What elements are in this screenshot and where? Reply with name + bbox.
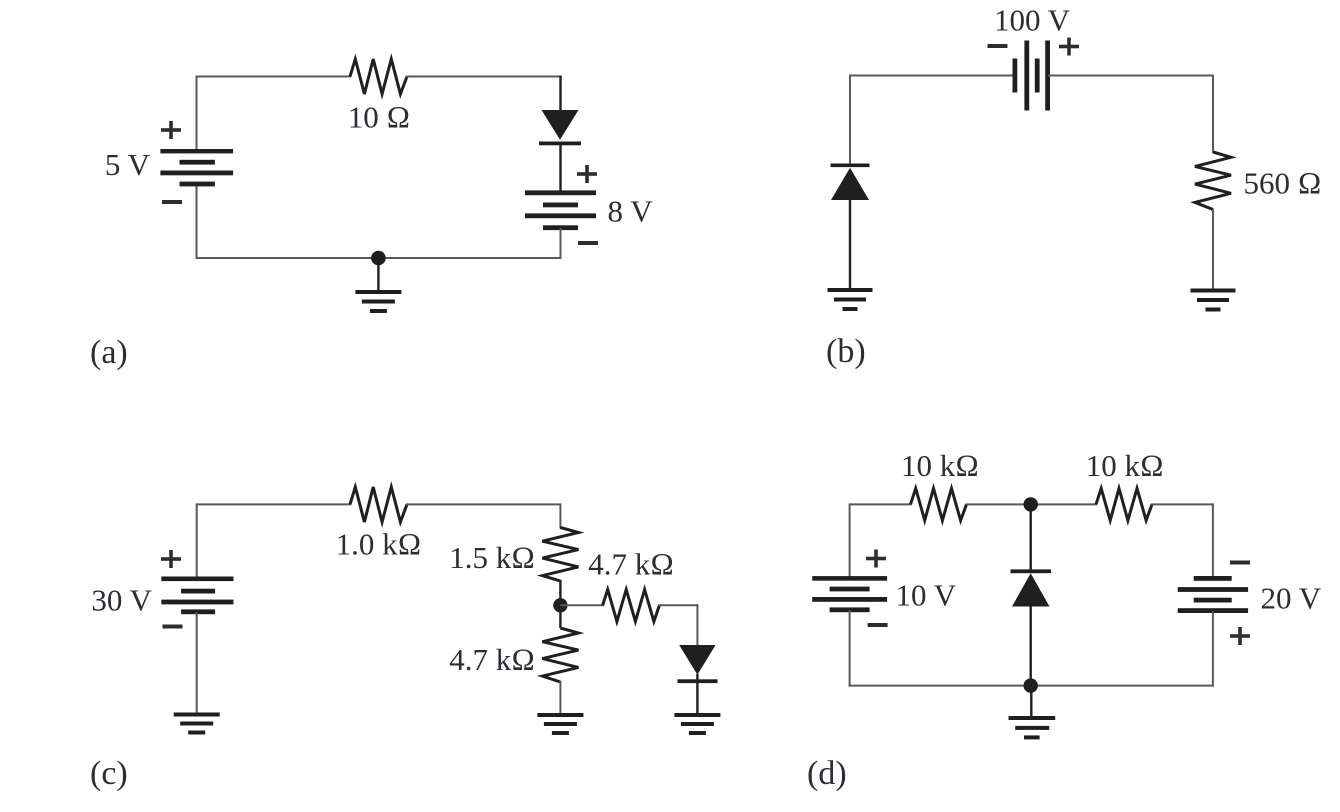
diode D1 cathode-down (a) <box>542 110 579 140</box>
resistor 560 ohm zigzag vertical (b) <box>1195 152 1231 210</box>
node dot ground junction (a) <box>371 251 386 266</box>
wire top-left vertical (c) <box>196 504 198 579</box>
wire top horizontal right segment (b) <box>1048 75 1214 77</box>
label minus of 8V battery (a) <box>578 241 598 245</box>
wire resistor to ground (c) <box>559 681 561 714</box>
resistor 10 ohm zigzag (a) <box>350 59 407 94</box>
label + of 8V battery (a) <box>577 165 597 183</box>
wire resistor to diode corner (c) <box>658 604 698 606</box>
resistor 10k left zigzag (d) <box>911 488 967 520</box>
diode D2 cathode-up (b) <box>831 164 870 168</box>
wire right vertical upper (a) <box>559 76 561 112</box>
ground stub (a) <box>377 258 379 291</box>
resistor 10k right zigzag (d) <box>1096 488 1152 520</box>
wire top horizontal segment 1 (d) <box>850 503 912 505</box>
wire bottom horizontal (a) <box>196 257 562 259</box>
wire diode vertical upper (c) <box>696 604 698 646</box>
wire diode to battery (a) <box>559 144 561 193</box>
diode D4 cathode-up (d) <box>1011 569 1052 573</box>
svg-text:4.7 kΩ: 4.7 kΩ <box>449 642 535 677</box>
wire left vertical lower (a) <box>196 184 198 259</box>
wire top horizontal segment 3 (d) <box>1151 503 1214 505</box>
svg-text:30 V: 30 V <box>91 583 152 618</box>
wire diode to ground (c) <box>696 674 698 714</box>
ground symbol right (b) <box>1191 289 1236 293</box>
wire battery to bottom (a) <box>560 228 562 259</box>
node dot top (d) <box>1023 497 1037 511</box>
resistor 1.5k zigzag vertical (c) <box>542 528 578 582</box>
svg-text:560 Ω: 560 Ω <box>1244 166 1322 201</box>
wire bottom horizontal (d) <box>849 685 1214 687</box>
label minus of 30V battery (c) <box>163 625 183 629</box>
svg-text:4.7 kΩ: 4.7 kΩ <box>588 546 674 581</box>
wire top horizontal segment 2 (d) <box>966 503 1098 505</box>
label minus of 100V battery (b) <box>988 44 1008 48</box>
wire top horizontal left segment (a) <box>196 76 352 78</box>
wire resistor to ground (b) <box>1212 209 1214 289</box>
svg-text:100 V: 100 V <box>994 3 1071 38</box>
label + of 10V battery (d) <box>866 550 886 568</box>
svg-text:10 Ω: 10 Ω <box>348 100 411 135</box>
svg-text:10 kΩ: 10 kΩ <box>1086 448 1164 483</box>
ground symbol right (c) <box>674 713 720 717</box>
ground symbol (a) <box>355 290 401 294</box>
wire left vertical upper (b) <box>849 75 851 166</box>
label minus of 10V battery (d) <box>868 623 888 627</box>
ground symbol left (b) <box>828 288 873 292</box>
battery 8V (a): plates long-short-long-short <box>525 190 596 195</box>
svg-text:(b): (b) <box>826 333 866 370</box>
resistor 4.7k zigzag vertical lower (c) <box>542 628 578 682</box>
diode D3 cathode-down (c) <box>679 645 715 675</box>
node dot bottom (d) <box>1023 678 1037 692</box>
label + of 5V battery (a) <box>161 121 181 139</box>
wire top horizontal right segment (c) <box>406 503 561 505</box>
wire left vertical lower (d) <box>849 610 851 687</box>
wire top-left vertical (a) <box>196 77 198 152</box>
wire battery to ground (c) <box>196 612 198 715</box>
svg-text:1.0 kΩ: 1.0 kΩ <box>336 527 422 562</box>
svg-text:5 V: 5 V <box>105 147 151 182</box>
battery 30V (c): plates long-short-long-short <box>161 577 233 582</box>
ground symbol middle (c) <box>537 713 583 717</box>
label minus of 20V battery (d) <box>1230 561 1250 565</box>
node dot (c) <box>553 598 567 612</box>
resistor 4.7k zigzag horizontal (c) <box>603 590 660 622</box>
ground stub (d) <box>1030 686 1032 718</box>
svg-text:(a): (a) <box>90 334 128 371</box>
wire right vertical upper (b) <box>1212 75 1214 154</box>
wire right vertical lower (d) <box>1212 611 1214 687</box>
battery 10V (d): plates long-short-long-short <box>812 576 887 581</box>
wire center vertical lower (d) <box>1029 606 1031 686</box>
wire diode to ground (b) <box>849 200 851 289</box>
battery 5V (a): plates long-short-long-short <box>160 149 233 153</box>
svg-text:8 V: 8 V <box>608 194 654 229</box>
wire left vertical upper (d) <box>849 503 851 579</box>
resistor 1.0k zigzag (c) <box>350 487 407 522</box>
label + of 100V battery (b) <box>1059 38 1079 56</box>
ground symbol (d) <box>1009 716 1056 720</box>
svg-text:20 V: 20 V <box>1261 581 1322 616</box>
svg-text:(d): (d) <box>807 755 847 792</box>
wire top horizontal left segment (b) <box>850 75 1015 77</box>
svg-text:10 V: 10 V <box>896 578 957 613</box>
label + of 30V battery (c) <box>161 550 181 568</box>
wire right vertical upper (d) <box>1212 503 1214 579</box>
svg-text:10 kΩ: 10 kΩ <box>901 448 979 483</box>
battery 20V (d): plates short-long-short-long <box>1194 576 1232 581</box>
label + of 20V battery (d) <box>1230 627 1250 645</box>
wire top horizontal right segment (a) <box>406 76 562 78</box>
wire node to horizontal resistor (c) <box>560 604 604 606</box>
svg-text:(c): (c) <box>90 755 128 792</box>
label minus of 5V battery (a) <box>162 200 182 204</box>
svg-text:1.5 kΩ: 1.5 kΩ <box>449 540 535 575</box>
wire center vertical upper (d) <box>1029 504 1031 571</box>
wire top horizontal left segment (c) <box>196 503 351 505</box>
battery 100V horizontal: plates short-long-short-long (b) <box>1013 59 1018 93</box>
wire right vertical to resistor (c) <box>559 503 561 528</box>
wire resistor to node (c) <box>559 580 561 628</box>
ground symbol left (c) <box>174 713 220 717</box>
